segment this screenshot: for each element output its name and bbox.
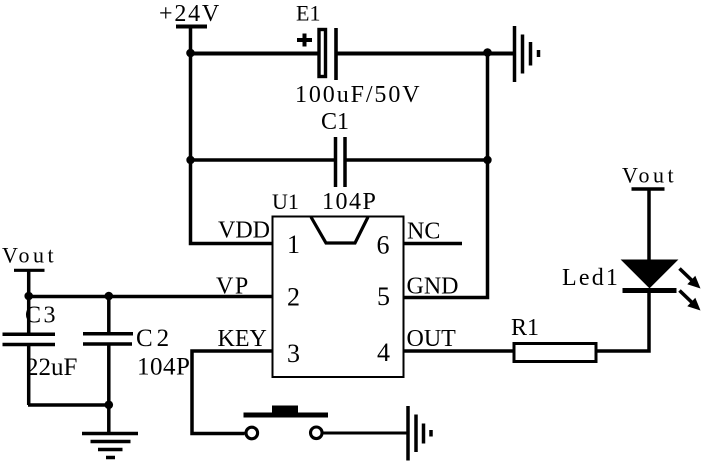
- wire OUT pin 4 to R1: [404, 349, 514, 353]
- wire from E1 right plate to top ground: [337, 52, 515, 56]
- svg-text:6: 6: [377, 231, 390, 260]
- wire VP row to pin 2: [28, 295, 273, 299]
- wire C1 row right segment: [345, 158, 488, 162]
- wire left rail from +24V down to pin1 then right to U1 pin 1: [191, 26, 273, 244]
- svg-text:C2: C2: [136, 325, 173, 352]
- wire button to bottom-right ground: [324, 432, 409, 435]
- svg-text:Led1: Led1: [562, 265, 620, 291]
- svg-text:R1: R1: [511, 315, 539, 341]
- svg-text:U1: U1: [272, 189, 299, 214]
- wire top rail from +24V node to E1 left plate: [190, 52, 319, 56]
- capacitor E1 (electrolytic): [295, 1, 421, 109]
- svg-text:100uF/50V: 100uF/50V: [295, 82, 421, 108]
- wire KEY pin 3 to button: [192, 351, 272, 434]
- capacitor C1: [321, 109, 377, 215]
- switch push button: [244, 406, 329, 439]
- junction dot C1 row right: [483, 156, 491, 164]
- svg-text:Vout: Vout: [622, 163, 677, 188]
- svg-text:KEY: KEY: [218, 326, 267, 352]
- svg-text:Vout: Vout: [2, 243, 57, 268]
- svg-text:2: 2: [287, 283, 300, 312]
- wire C1 row left segment: [190, 158, 335, 162]
- svg-text:+24V: +24V: [159, 1, 221, 27]
- svg-text:1: 1: [287, 230, 300, 259]
- svg-text:3: 3: [287, 339, 300, 368]
- op-amp U1 (IC box): [216, 189, 459, 377]
- svg-text:NC: NC: [407, 219, 440, 245]
- junction dot C1 row left: [186, 156, 194, 164]
- svg-text:104P: 104P: [322, 189, 377, 215]
- svg-text:4: 4: [377, 338, 390, 367]
- ground (bottom right, rotated): [408, 406, 431, 461]
- capacitor C3: [3, 297, 78, 406]
- svg-text:OUT: OUT: [407, 326, 457, 352]
- svg-text:E1: E1: [296, 1, 320, 26]
- ground (top right, rotated): [515, 26, 539, 82]
- junction dot at +24V rail: [186, 49, 195, 58]
- junction dot at top ground: [483, 48, 492, 57]
- svg-text:C1: C1: [321, 109, 349, 135]
- LED Led1: [562, 189, 701, 311]
- wire NC stub pin 6: [404, 242, 462, 246]
- svg-text:22uF: 22uF: [26, 354, 77, 381]
- junction dot C2 top: [105, 292, 114, 301]
- svg-text:5: 5: [377, 282, 390, 311]
- wire R1 to LED cathode: [596, 292, 649, 351]
- node Vout (left) terminal: [2, 243, 57, 297]
- wire right rail from top ground junction down to GND pin 5: [404, 53, 488, 298]
- node +24V terminal: [159, 1, 221, 27]
- svg-text:GND: GND: [407, 274, 459, 300]
- svg-text:VDD: VDD: [218, 218, 270, 244]
- svg-text:104P: 104P: [137, 354, 190, 381]
- wire bottom link C3 to C2: [28, 403, 109, 407]
- junction dot Vout/C3: [24, 292, 33, 301]
- capacitor C2: [83, 297, 190, 433]
- junction dot C2 bottom: [105, 401, 114, 410]
- node Vout (right) terminal: [622, 163, 677, 190]
- resistor R1: [511, 315, 596, 362]
- ground (bottom left): [82, 434, 138, 458]
